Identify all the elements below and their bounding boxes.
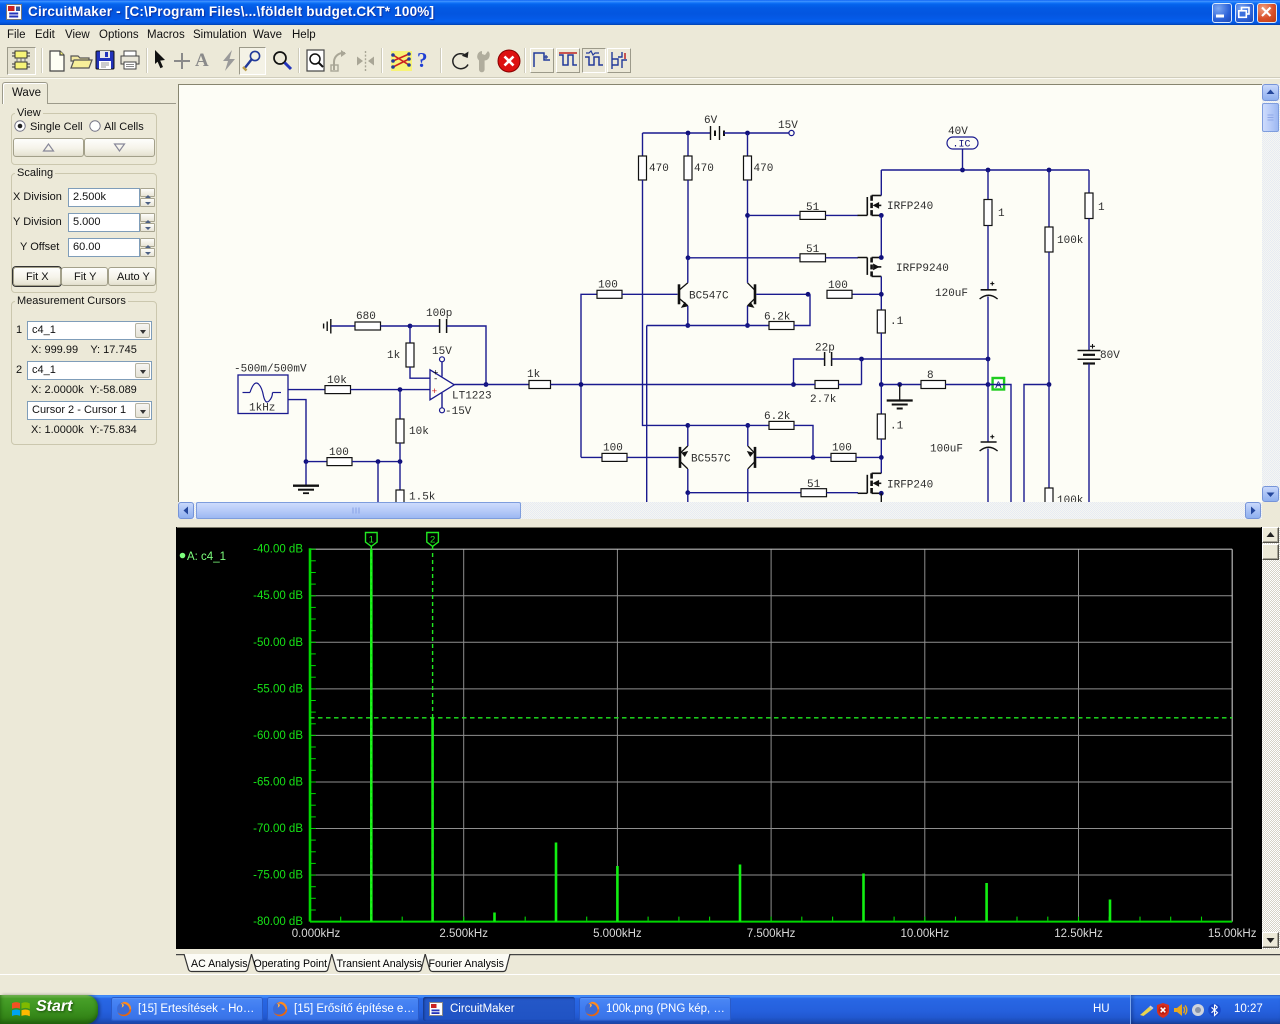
grid horizontal lines (310, 596, 1232, 875)
node dot gnd-100 left (304, 459, 309, 464)
View group (11, 113, 157, 165)
resistor R 1.5k (396, 490, 404, 507)
svg-text:10k: 10k (409, 426, 429, 438)
text tool A (195, 50, 209, 72)
start button (0, 995, 98, 1024)
label 1a (998, 208, 1005, 220)
resistor R 10k div (396, 419, 404, 443)
wire .1 bottom top (880, 385, 882, 415)
arrow tool (152, 49, 168, 73)
wire Q3 collector down (687, 469, 689, 493)
label IRFP240 bottom (887, 480, 933, 492)
node dot 100k-a (1047, 382, 1052, 387)
Measurement Cursors group (11, 301, 157, 445)
svg-text:15V: 15V (778, 120, 798, 132)
svg-text:1: 1 (998, 208, 1005, 220)
schematic vertical scrollbar (1262, 84, 1280, 502)
label 51a (806, 202, 820, 214)
label 10k div (409, 426, 429, 438)
node dot Q4e (745, 423, 750, 428)
cursor 2 line (432, 546, 434, 922)
X Division row (13, 191, 62, 203)
task button 2 (267, 997, 419, 1021)
wire 6.2k top right jog (794, 294, 810, 325)
wire IRFP9240 source down (880, 276, 882, 310)
transistor Q4 BC557C-pair (747, 446, 755, 469)
wire A right-down (988, 385, 1011, 504)
svg-text:1kHz: 1kHz (249, 403, 275, 415)
cursor 2 combo (16, 364, 22, 376)
wire out to gnd node (881, 384, 921, 386)
svg-text:-65.00 dB: -65.00 dB (253, 777, 303, 789)
node dot base net (806, 292, 811, 297)
node dot rail-470b (686, 131, 691, 136)
resistor R 51a (800, 211, 826, 219)
resistor R 1b (1085, 193, 1093, 219)
wire bottom FET drain (880, 457, 882, 473)
wire 51a to IRFP240 gate (826, 214, 859, 216)
node A box (993, 378, 1005, 392)
label 680 (356, 311, 376, 323)
label 100d (832, 443, 852, 455)
zoom tool (270, 49, 294, 73)
label 22p (815, 343, 835, 355)
capacitor C 100p (440, 319, 447, 333)
node dot rail-ic (960, 168, 965, 173)
cursor 1 line (370, 546, 372, 922)
svg-text:100: 100 (598, 280, 618, 292)
plus tool (172, 51, 192, 71)
svg-text:100: 100 (603, 443, 623, 455)
resistor R 100k top (1045, 227, 1053, 252)
svg-text:6.2k: 6.2k (764, 411, 791, 423)
wire 2.7k right (839, 384, 862, 386)
wire Q1 collector (687, 258, 689, 283)
node dot rail-100k (1047, 168, 1052, 173)
schematic horizontal scrollbar (178, 502, 1262, 519)
svg-text:2.7k: 2.7k (810, 394, 837, 406)
wire 1a down (987, 226, 989, 286)
close button (1257, 3, 1277, 23)
wire 1b down (1088, 219, 1090, 351)
svg-text:-60.00 dB: -60.00 dB (253, 730, 303, 742)
node dot 100e-376 (376, 459, 381, 464)
svg-text:Operating Point: Operating Point (254, 958, 328, 970)
battery V1 6V (711, 126, 725, 140)
ground source (293, 462, 319, 494)
label BC557C (691, 454, 731, 466)
wire Q3 emitter up (687, 425, 689, 446)
wire opamp out (454, 384, 529, 386)
task button 4 (579, 997, 731, 1021)
svg-text:-: - (433, 375, 438, 385)
label source amplitude (234, 364, 307, 376)
svg-text:22p: 22p (815, 343, 835, 355)
wire 2.7k left (794, 384, 816, 386)
wire 120uF down (987, 297, 989, 360)
wire Q1 emitter (687, 306, 689, 326)
svg-text:.1: .1 (890, 316, 904, 328)
transistor Q2 BC547C-pair (747, 283, 755, 308)
label 120uF (935, 288, 968, 300)
node dot 100d-IRFP (879, 455, 884, 460)
Y Division row (13, 216, 62, 228)
node dot 100b-mosfets (879, 292, 884, 297)
wire source out (288, 389, 325, 391)
svg-text:LT1223: LT1223 (452, 391, 492, 403)
label 100e (329, 447, 349, 459)
wire 1k fb top (409, 326, 411, 343)
ground input (324, 319, 355, 334)
wire Q2 base to 100 (756, 293, 808, 295)
resistor R 2.7k (815, 381, 839, 389)
wire 51c left (688, 492, 801, 494)
x axis (310, 921, 1232, 923)
svg-text:100uF: 100uF (930, 444, 963, 456)
svg-text:470: 470 (754, 163, 774, 175)
tray gray icon (1191, 1003, 1205, 1017)
resistor R 1a (984, 200, 992, 226)
tray shield icon (1156, 1003, 1170, 1018)
svg-text:-55.00 dB: -55.00 dB (253, 683, 303, 695)
lightning tool (219, 49, 239, 73)
wire 100k btm vert (1048, 385, 1050, 489)
wire 22p right (832, 358, 988, 360)
wire to 100p (410, 325, 440, 327)
rotate icon (disabled) (329, 49, 353, 73)
cursor diff combo (27, 401, 152, 420)
svg-text:100p: 100p (426, 308, 452, 320)
resistor R 6.2k bottom (769, 421, 794, 429)
resistor R 100k bottom (1045, 488, 1053, 507)
transistor IRFP240 bottom symbol (858, 473, 882, 493)
transistor Q3 BC557C (680, 446, 688, 469)
svg-text:2: 2 (430, 535, 435, 546)
resistor R 100c (602, 453, 627, 461)
label .1 top (890, 316, 904, 328)
svg-text:12.50kHz: 12.50kHz (1054, 928, 1103, 940)
wire 470c down to Q2 collector (747, 180, 749, 279)
restore button (1235, 3, 1255, 23)
wire 1k out right (551, 384, 794, 386)
Wave tab (2, 82, 48, 104)
CircuitMaker app icon (6, 4, 24, 22)
label 470b (694, 163, 714, 175)
label 100b (828, 280, 848, 292)
resistor R 100e (327, 458, 352, 466)
radio Single Cell (14, 120, 26, 132)
wire 100p to out (447, 326, 486, 385)
cursor flag 1 (366, 533, 378, 547)
kHz labels (292, 928, 1257, 940)
svg-text:A: c4_1: A: c4_1 (187, 551, 226, 563)
wire 986 to A (987, 359, 989, 385)
resistor R 470b (684, 156, 692, 180)
wire 470c top (747, 133, 749, 156)
stop icon (496, 48, 522, 74)
svg-text:100: 100 (329, 447, 349, 459)
wire 10k div top (399, 390, 401, 419)
wire 100d right (856, 456, 881, 458)
wire 1k fb to opamp (410, 367, 430, 378)
wire IRFP240 drain (880, 170, 882, 196)
svg-text:+: + (432, 386, 438, 397)
wire 470b top (687, 133, 689, 156)
wire 100e left (306, 461, 327, 463)
label 470c (754, 163, 774, 175)
label 100uF (930, 444, 963, 456)
tab AC Analysis (184, 954, 252, 972)
svg-text:BC547C: BC547C (689, 291, 729, 303)
label 1k fb (387, 350, 401, 362)
wire 51b left (688, 257, 800, 259)
svg-text:-45.00 dB: -45.00 dB (253, 590, 303, 602)
wire 100e right (352, 461, 400, 463)
resistor R .1 bottom (877, 414, 885, 439)
resistor R 470a (639, 156, 647, 180)
label 15V opamp (432, 346, 452, 358)
wire 6.2k bottom net (688, 424, 769, 426)
wire 8 to A (946, 384, 994, 386)
tray bluetooth icon (1208, 1002, 1221, 1018)
node dot Q1-collector-51b (686, 255, 691, 260)
fourier spectrum bars (371, 549, 1110, 921)
Scaling group (11, 173, 157, 293)
wrench icon (disabled) (474, 49, 496, 73)
node dot gnd-node (897, 382, 902, 387)
svg-text:80V: 80V (1100, 350, 1120, 362)
node dot 986-357 (986, 357, 991, 362)
wire Q2 emitter (747, 306, 749, 326)
scope button 1 (530, 48, 554, 73)
svg-text:2.500kHz: 2.500kHz (439, 928, 488, 940)
svg-text:51: 51 (806, 202, 820, 214)
node dot fb (408, 324, 413, 329)
zoom-fit page icon (305, 48, 328, 74)
node dot Q3c-51c (685, 490, 690, 495)
new file icon (46, 49, 68, 73)
open folder icon (69, 50, 93, 72)
svg-text:-75.00 dB: -75.00 dB (253, 870, 303, 882)
resistor R 51c (801, 489, 827, 497)
resistor R 1k fb (406, 343, 414, 367)
label 1.5k (409, 492, 436, 504)
svg-text:-15V: -15V (445, 406, 472, 418)
trace label A: c4_1 (180, 551, 226, 563)
battery V3 80V (1078, 344, 1101, 364)
task button 3 active (423, 997, 575, 1021)
Y Offset row (20, 241, 59, 253)
node dot 100e-398 (398, 459, 403, 464)
wire 51a left (748, 214, 801, 216)
scope button 4 (607, 48, 631, 73)
wire 10k div down (399, 443, 401, 462)
cursor flag 2 (427, 533, 439, 547)
probe tool (selected) (239, 47, 266, 75)
wire 470a top (642, 133, 644, 156)
node dot node-A (986, 382, 991, 387)
wire 10k to opamp+ (351, 389, 431, 391)
wire 376 down (377, 462, 379, 503)
wire 470a down-to-BC557 collectors (643, 180, 689, 425)
signal source V2 (238, 375, 288, 414)
wire 100uF down (987, 449, 989, 504)
svg-text:51: 51 (807, 479, 821, 491)
wire .1 bottom down (880, 439, 882, 457)
svg-text:1k: 1k (527, 369, 541, 381)
label 1k out (527, 369, 541, 381)
node dot Q3e (685, 423, 690, 428)
wire 22p left (794, 359, 825, 385)
svg-text:Transient Analysis: Transient Analysis (337, 958, 423, 970)
wave classic scrollbar (1262, 527, 1280, 949)
label IRFP9240 (896, 263, 949, 275)
wire IRFP240-IRFP9240 (880, 215, 882, 257)
Fit X button (focused) (13, 267, 61, 286)
resistor R 680 (355, 322, 381, 330)
svg-text:15.00kHz: 15.00kHz (1208, 928, 1257, 940)
svg-text:15V: 15V (432, 346, 452, 358)
wire 2.7k up (861, 359, 863, 385)
wire 80V down (1088, 364, 1090, 504)
svg-text:6V: 6V (704, 115, 718, 127)
resistor R 470c (744, 156, 752, 180)
wire 6.2k bottom jog (794, 425, 813, 457)
svg-text:5.000kHz: 5.000kHz (593, 928, 642, 940)
wire 100d left (813, 456, 831, 458)
dB labels (253, 544, 303, 928)
svg-text:120uF: 120uF (935, 288, 968, 300)
capacitor C 100uF (980, 385, 998, 452)
label 100p (426, 308, 452, 320)
label 6V (704, 115, 718, 127)
node dot 22p-2.7k (859, 357, 864, 362)
label 6.2k bottom (764, 411, 791, 423)
node dot out-2.7k (791, 382, 796, 387)
resistor R 100d (831, 453, 856, 461)
wire 1.5k top (399, 462, 401, 490)
label 15V (778, 120, 798, 132)
scope button 3 (pressed) (582, 48, 606, 73)
wire 100k-jog (1024, 385, 1049, 504)
resistor R 51b (800, 254, 826, 262)
wire 6.2k-top net (647, 325, 769, 327)
capacitor C 120uF (980, 282, 998, 299)
label 100a (598, 280, 618, 292)
svg-text:8: 8 (927, 370, 934, 382)
capacitor C 22p (825, 352, 832, 366)
label 100k bottom (1057, 495, 1084, 507)
plot right border (1231, 549, 1233, 921)
label 1kHz (249, 403, 275, 415)
node dot rail-470c (745, 131, 750, 136)
svg-text:IRFP240: IRFP240 (887, 480, 933, 492)
svg-text:40V: 40V (948, 126, 968, 138)
svg-text:100: 100 (832, 443, 852, 455)
cursor 1 combo (16, 324, 22, 336)
cell up button (13, 138, 84, 157)
wire 40V rail (881, 169, 1089, 171)
label 100k top (1057, 235, 1084, 247)
label LT1223 (452, 391, 492, 403)
save floppy icon (94, 49, 116, 72)
node dot rail-986 (986, 168, 991, 173)
transistor Q1 BC547C (679, 283, 688, 308)
svg-text:470: 470 (694, 163, 714, 175)
label 51b (806, 244, 820, 256)
help ? icon (417, 48, 428, 73)
node dot IRFP9240 drain (879, 255, 884, 260)
label 8 (927, 370, 934, 382)
node dot fb-out (484, 382, 489, 387)
label 1b (1098, 202, 1105, 214)
resistor R 1k out (529, 381, 551, 389)
node dot bottom FET source (879, 491, 884, 496)
tab Operating Point (252, 954, 332, 972)
y axis ticks (311, 549, 316, 910)
node dot plus-in (398, 387, 403, 392)
radio All Cells (89, 120, 101, 132)
node dot 470c-51a (745, 213, 750, 218)
mirror icon (disabled) (356, 50, 376, 72)
transistor IRFP9240 symbol (858, 258, 882, 277)
initial condition 40V .IC (947, 137, 978, 170)
cell down button (84, 138, 155, 157)
wire 6V top rail (643, 132, 711, 134)
resistor R 100b (827, 290, 852, 298)
svg-text:-70.00 dB: -70.00 dB (253, 823, 303, 835)
svg-text:A: A (995, 380, 1002, 392)
wire emitter-net down (646, 326, 648, 504)
label 10k in (327, 375, 347, 387)
node dot rail-579 (579, 382, 584, 387)
tab Transient Analysis (332, 954, 425, 972)
systray (1130, 995, 1280, 1024)
svg-text:Fourier Analysis: Fourier Analysis (429, 958, 504, 970)
wire 100a left-vert (581, 294, 597, 457)
ground output (887, 385, 913, 409)
label .1 bottom (890, 421, 904, 433)
svg-text:10k: 10k (327, 375, 347, 387)
wire Q3c down (687, 493, 689, 503)
svg-text:7.500kHz: 7.500kHz (747, 928, 796, 940)
task button 1 (111, 997, 263, 1021)
svg-text:680: 680 (356, 311, 376, 323)
wire 100k down (1048, 252, 1050, 385)
label 40V (948, 126, 968, 138)
tab Fourier Analysis (425, 954, 510, 972)
label 6.2k top (764, 312, 791, 324)
svg-text:-80.00 dB: -80.00 dB (253, 916, 303, 928)
svg-text:100k: 100k (1057, 235, 1084, 247)
cursor y line (310, 717, 1232, 719)
wire rail right corner (1088, 170, 1090, 193)
wire bottom FET source stub (880, 493, 882, 502)
svg-text:10.00kHz: 10.00kHz (901, 928, 950, 940)
svg-text:-40.00 dB: -40.00 dB (253, 544, 303, 556)
wire 51c to gate (827, 492, 859, 494)
wire Q2 collector (747, 279, 749, 283)
plot top border (310, 548, 1232, 550)
label 2.7k (810, 394, 837, 406)
svg-text:-500m/500mV: -500m/500mV (234, 364, 307, 376)
wire Q4 emitter up (747, 425, 749, 446)
resistor R .1 top (877, 310, 885, 333)
label IRFP240 top (887, 201, 933, 213)
node dot IRFP240 source (879, 213, 884, 218)
svg-text:.IC: .IC (953, 140, 971, 151)
browse parts button (pressed) (7, 47, 36, 75)
